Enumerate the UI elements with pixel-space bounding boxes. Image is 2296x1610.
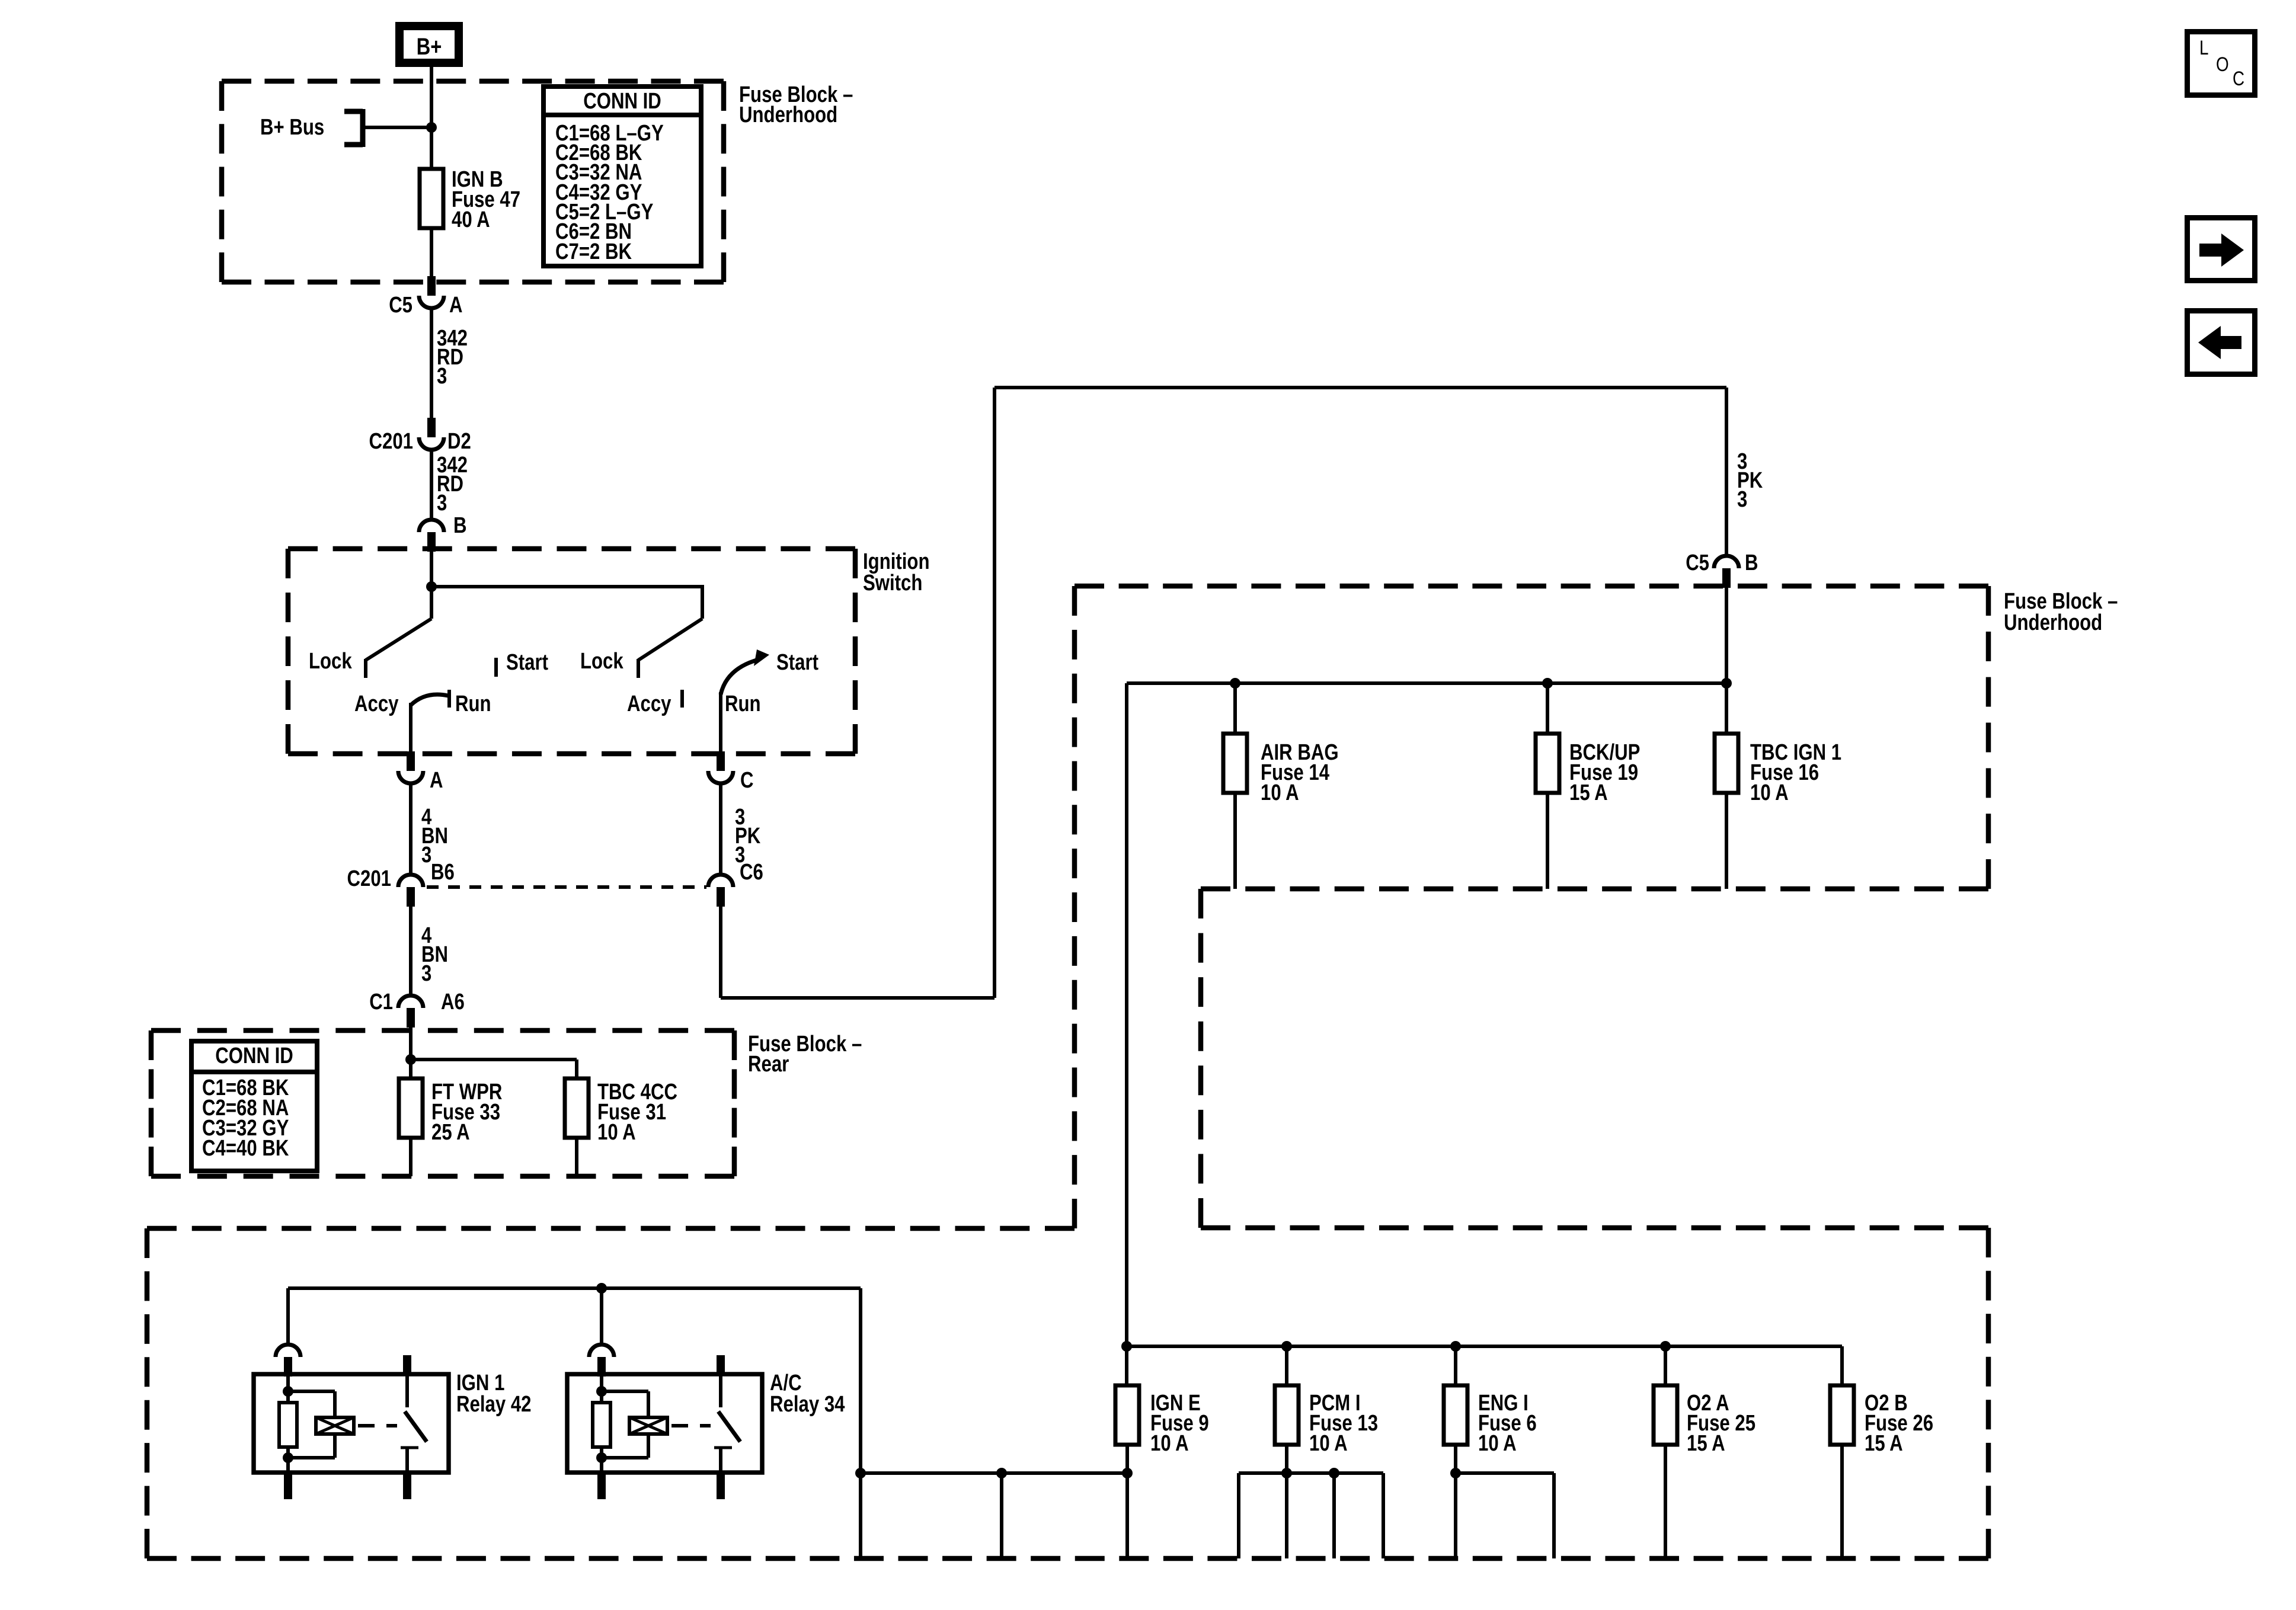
node eng i junction [1450, 1468, 1461, 1478]
label wire 4 BN 3 (2) [421, 923, 448, 986]
label C5 [389, 293, 412, 318]
fuse F16 TBC IGN 1 [1715, 734, 1738, 793]
label pin B (right) [1745, 550, 1758, 575]
wire relay34 coil pin [600, 1377, 603, 1403]
svg-text:B+ Bus: B+ Bus [260, 115, 324, 140]
wire rear junction to TBC fuse [411, 1060, 577, 1078]
wire bottom bus drop 2 [1000, 1473, 1003, 1558]
wire to pcm i fuse [1285, 1346, 1288, 1385]
wire relay34 coil link lower [602, 1434, 648, 1458]
fuse F31 TBC 4CC [565, 1078, 589, 1138]
relay 34 box [567, 1374, 762, 1473]
label pin B6 [431, 860, 455, 885]
label fuse 25 [1687, 1391, 1755, 1456]
wire ignition internal bus [431, 585, 702, 588]
fuse F47 IGN B [420, 169, 443, 228]
node ign e dist junction [1122, 1468, 1133, 1478]
svg-text:3: 3 [1737, 487, 1747, 512]
label pin A [449, 293, 463, 318]
label pin D2 [447, 429, 471, 454]
svg-text:10 A: 10 A [597, 1120, 636, 1145]
wire B+ bus tap [363, 126, 431, 129]
wire pcm i fuse out [1285, 1445, 1288, 1473]
label fuse 31 [597, 1080, 677, 1145]
wire drop to C5-B [1725, 388, 1728, 556]
fuse block underhood (right) dashed outline [147, 586, 1988, 1558]
svg-text:3: 3 [437, 491, 447, 516]
wire right bus [1127, 681, 1726, 685]
node relay 34 tap [596, 1283, 607, 1294]
wire bottom distribution bus [861, 1471, 1127, 1475]
label Accy 1 [354, 692, 399, 716]
fuse F25 O2 A [1654, 1385, 1677, 1445]
wire bottom bus drop 1 [859, 1473, 862, 1558]
legend forward arrow box [2188, 218, 2255, 281]
fuse block rear dashed box [151, 1030, 734, 1176]
wire eng i distribution [1456, 1473, 1554, 1558]
armature relay 34 [718, 1411, 740, 1442]
contact Accy 2 tick [680, 690, 684, 708]
node ign e bus tap [1121, 1341, 1132, 1352]
wire 342 RD segment 1 [430, 309, 433, 418]
wire pcm i distribution [1239, 1473, 1383, 1558]
node air bag tap [1230, 678, 1240, 689]
svg-text:A6: A6 [441, 990, 465, 1014]
wire 3 PK segment [719, 785, 722, 875]
connector ignition pin A [398, 751, 423, 783]
wire Run2 to C [719, 692, 722, 753]
wire relay bus [288, 1286, 861, 1290]
node pcm i junction 2 [1329, 1468, 1339, 1478]
svg-text:Underhood: Underhood [739, 103, 837, 127]
legend back arrow box [2188, 311, 2255, 375]
svg-text:10 A: 10 A [1478, 1431, 1517, 1456]
label Fuse Block Underhood (right) [2004, 589, 2118, 635]
node bottom bus left junction [855, 1468, 866, 1478]
svg-text:10 A: 10 A [1150, 1431, 1189, 1456]
fuse F33 FT WPR [399, 1078, 423, 1138]
connector C1 pin A6 [398, 996, 423, 1028]
wire fuse47 to C5-A [430, 228, 433, 277]
conn id table underhood [543, 87, 701, 266]
svg-text:D2: D2 [447, 429, 471, 454]
wire relay bus riser [859, 1288, 862, 1473]
coil relay 42 [316, 1417, 354, 1434]
legend LOC box [2188, 32, 2255, 95]
label wire 3 PK 3 [735, 805, 761, 868]
svg-text:B+: B+ [417, 34, 442, 60]
svg-text:B6: B6 [431, 860, 455, 885]
label Start 1 [506, 650, 548, 675]
svg-text:C4=40 BK: C4=40 BK [202, 1136, 289, 1161]
svg-text:CONN ID: CONN ID [215, 1044, 293, 1068]
B+ bus bracket symbol [344, 109, 363, 147]
label pin A (out) [430, 768, 443, 793]
B+ power feed wire [430, 59, 433, 169]
wire air bag fuse out [1233, 793, 1237, 889]
svg-text:C1: C1 [369, 990, 393, 1014]
svg-text:Switch: Switch [863, 571, 922, 596]
conn id table rear [191, 1041, 317, 1171]
svg-text:Start: Start [776, 650, 818, 675]
connector C201 pin D2 [419, 418, 444, 450]
node relay 34 coil top [596, 1386, 607, 1397]
armature relay 42 [405, 1411, 427, 1442]
jumper B6 to C6 dashed wire [427, 885, 706, 889]
connector C5 pin A [419, 276, 444, 308]
label fuse 33 [431, 1080, 502, 1145]
svg-text:15 A: 15 A [1569, 780, 1608, 805]
svg-text:C: C [2233, 68, 2244, 90]
svg-text:3: 3 [421, 961, 431, 986]
label C5 (right) [1686, 550, 1709, 575]
label Ignition Switch [863, 549, 930, 596]
svg-text:A: A [430, 768, 443, 793]
ignition switch dashed box [288, 549, 855, 754]
label Start 2 [776, 650, 818, 675]
connector C5 pin B (right) [1714, 556, 1739, 588]
wire relay42 coil link [288, 1391, 335, 1417]
label Fuse Block Rear [748, 1032, 862, 1077]
label C201 (B6) [347, 866, 392, 891]
label fuse 9 [1150, 1391, 1209, 1456]
wire right pole drop [701, 585, 704, 619]
wire relay42 resistor lower [286, 1447, 290, 1458]
wire relay42 switch contact [405, 1374, 409, 1407]
relay 34 actuation dashed link [671, 1424, 711, 1427]
pin relay 42 switch top [403, 1355, 411, 1375]
node bottom bus mid junction [996, 1468, 1007, 1478]
wire ign e fuse out [1125, 1445, 1129, 1473]
svg-text:C201: C201 [369, 429, 414, 454]
wire relay34 coil link [602, 1391, 648, 1417]
label fuse 16 [1750, 740, 1841, 805]
label pin C (out) [740, 768, 754, 793]
contact relay 42 lower [401, 1448, 418, 1473]
wire Run1 to A [409, 703, 412, 753]
relay 42 box [254, 1374, 449, 1473]
node pcm i junction 1 [1281, 1468, 1292, 1478]
svg-text:Run: Run [725, 692, 761, 716]
wire 4 BN segment 1 [409, 785, 412, 875]
wire C6 down [719, 907, 722, 998]
connector ignition pin B [419, 520, 444, 552]
label wire 342 RD 3 (1) [437, 326, 468, 389]
svg-text:Accy: Accy [627, 692, 671, 716]
svg-text:10 A: 10 A [1261, 780, 1299, 805]
connector C201 pin B6 [398, 875, 423, 907]
label C201 (D2) [369, 429, 414, 454]
svg-text:A: A [449, 293, 463, 318]
switch pole 1 armature [366, 587, 431, 660]
label wire 3 PK 3 (right) [1737, 449, 1763, 512]
svg-text:Relay 34: Relay 34 [770, 1392, 845, 1417]
svg-text:C5: C5 [1686, 550, 1709, 575]
wire tbc ign1 fuse out [1725, 793, 1728, 889]
pin relay 34 switch bottom [717, 1474, 725, 1499]
svg-text:Relay 42: Relay 42 [456, 1392, 532, 1417]
label B+ Bus [260, 115, 324, 140]
svg-text:Lock: Lock [309, 649, 352, 674]
fuse F9 IGN E [1115, 1385, 1139, 1445]
node ignition feed junction [426, 581, 437, 592]
pin relay 34 coil bottom [597, 1458, 606, 1499]
label pin B [453, 513, 467, 538]
wire A6 into rear block [409, 1028, 412, 1061]
svg-text:15 A: 15 A [1865, 1431, 1903, 1456]
svg-text:C5: C5 [389, 293, 412, 318]
svg-text:C7=2 BK: C7=2 BK [555, 239, 632, 264]
label wire 4 BN 3 (1) [421, 805, 448, 868]
wire eng i fuse out [1454, 1445, 1457, 1473]
node rear block junction [405, 1054, 416, 1065]
switch pole 2 armature [638, 619, 702, 660]
wire C6 route bottom [721, 996, 994, 1000]
label Lock 2 [580, 649, 623, 674]
svg-text:L: L [2199, 37, 2209, 59]
svg-text:Accy: Accy [354, 692, 399, 716]
node relay 42 coil top [283, 1386, 293, 1397]
label Run 2 [725, 692, 761, 716]
label fuse 14 [1261, 740, 1339, 805]
label Run 1 [455, 692, 491, 716]
resistor relay 42 [279, 1403, 297, 1447]
node relay 34 coil bottom [596, 1452, 607, 1463]
node B+ bus junction [426, 122, 437, 133]
svg-text:Start: Start [506, 650, 548, 675]
svg-text:CONN ID: CONN ID [583, 89, 661, 114]
svg-text:Lock: Lock [580, 649, 623, 674]
svg-text:25 A: 25 A [431, 1120, 470, 1145]
svg-text:15 A: 15 A [1687, 1431, 1725, 1456]
node tbc ign1 tap [1721, 678, 1732, 689]
svg-text:10 A: 10 A [1750, 780, 1789, 805]
label C1 [369, 990, 393, 1014]
contact Lock 1 tick [364, 659, 367, 678]
label wire 342 RD 3 (2) [437, 453, 468, 516]
label fuse 13 [1309, 1391, 1378, 1456]
label fuse 47 [452, 167, 520, 232]
label Relay 34 [770, 1371, 845, 1417]
start 2 arrow [721, 649, 769, 694]
connector ignition pin C [708, 751, 733, 783]
connector relay 42 coil pin [276, 1345, 300, 1377]
wire junction to FT WPR fuse [409, 1060, 412, 1078]
label Relay 42 [456, 1371, 532, 1417]
fuse F26 O2 B [1830, 1385, 1854, 1445]
wire right bus drop [1125, 683, 1128, 1346]
pin relay 42 switch bottom [403, 1474, 411, 1499]
wire bck/up fuse out [1546, 793, 1549, 889]
wire TBC 4CC to edge [575, 1138, 578, 1176]
label Lock 1 [309, 649, 352, 674]
svg-text:Rear: Rear [748, 1052, 789, 1077]
svg-text:Underhood: Underhood [2004, 610, 2102, 635]
pin relay 42 coil bottom [284, 1458, 292, 1499]
wire five-fuse bus [1127, 1345, 1842, 1348]
wire ign e to edge [1125, 1473, 1129, 1558]
node pcm i bus tap [1281, 1341, 1292, 1352]
wire to relay 42 coil [286, 1288, 290, 1345]
connector relay 34 coil pin [589, 1345, 614, 1377]
wire 4 BN segment 2 [409, 907, 412, 996]
wire o2 b drop [1840, 1346, 1844, 1385]
relay 42 actuation dashed link [358, 1424, 397, 1427]
svg-text:C201: C201 [347, 866, 392, 891]
coil relay 34 [629, 1417, 667, 1434]
svg-text:C: C [740, 768, 754, 793]
node relay 42 coil bottom [283, 1452, 293, 1463]
node bck/up tap [1542, 678, 1553, 689]
connector C6 [708, 875, 733, 907]
wire relay34 resistor lower [600, 1447, 603, 1458]
fuse F19 BCK/UP [1536, 734, 1559, 793]
wire to eng i fuse [1454, 1346, 1457, 1385]
label fuse 6 [1478, 1391, 1537, 1456]
wire FT WPR to edge [409, 1138, 412, 1176]
wire to tbc ign1 fuse [1725, 683, 1728, 734]
wire C6 route top [994, 386, 1726, 389]
fuse F6 ENG I [1444, 1385, 1467, 1445]
svg-text:C6: C6 [740, 860, 763, 885]
contact Run 1 tick [447, 690, 451, 708]
node o2 a bus tap [1660, 1341, 1671, 1352]
label Fuse Block Underhood (top) [739, 82, 853, 127]
svg-text:10 A: 10 A [1309, 1431, 1348, 1456]
label fuse 26 [1865, 1391, 1933, 1456]
label pin A6 [441, 990, 465, 1014]
wire C5B into fuse block [1725, 588, 1728, 683]
wire to bck/up fuse [1546, 683, 1549, 734]
wire 342 RD segment 2 [430, 451, 433, 519]
wire relay34 switch contact [719, 1374, 722, 1407]
svg-text:40 A: 40 A [452, 207, 490, 232]
wire to relay 34 coil [600, 1288, 603, 1345]
fuse block underhood (top) dashed box [222, 81, 724, 282]
wiper Accy-Run 1 [411, 694, 448, 705]
svg-text:3: 3 [421, 843, 431, 868]
node eng i bus tap [1450, 1341, 1461, 1352]
wire o2 a fuse out [1664, 1445, 1667, 1558]
wire to air bag fuse [1233, 683, 1237, 734]
svg-text:B: B [453, 513, 467, 538]
wire relay42 coil pin [286, 1377, 290, 1403]
svg-text:3: 3 [437, 364, 447, 389]
wire B into switch [430, 552, 433, 587]
wire C6 route up [993, 388, 996, 998]
svg-text:O: O [2216, 53, 2229, 76]
resistor relay 34 [593, 1403, 610, 1447]
label Accy 2 [627, 692, 671, 716]
fuse F14 AIR BAG [1223, 734, 1247, 793]
wire o2 b fuse out [1840, 1445, 1844, 1558]
wire to o2 a fuse [1664, 1346, 1667, 1385]
contact Start 1 tick [494, 658, 498, 677]
battery symbol B+ [399, 26, 459, 63]
wire to ign e fuse [1125, 1346, 1128, 1385]
fuse F13 PCM I [1275, 1385, 1299, 1445]
label fuse 19 [1569, 740, 1640, 805]
label pin C6 [740, 860, 763, 885]
contact relay 34 lower [714, 1448, 732, 1473]
wire relay42 coil link lower [288, 1434, 335, 1458]
svg-text:Run: Run [455, 692, 491, 716]
pin relay 34 switch top [717, 1355, 725, 1375]
contact Lock 2 tick [637, 659, 640, 678]
svg-text:B: B [1745, 550, 1758, 575]
